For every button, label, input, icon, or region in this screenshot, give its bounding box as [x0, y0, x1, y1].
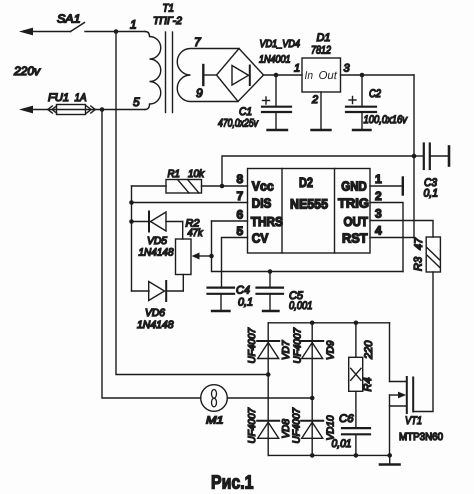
diode VD7 — [257, 341, 279, 359]
svg-text:0,1: 0,1 — [424, 188, 439, 200]
svg-text:2: 2 — [375, 189, 382, 203]
svg-text:VD10: VD10 — [326, 415, 337, 440]
svg-text:VD5: VD5 — [147, 235, 167, 247]
ground bar C5 — [263, 310, 279, 312]
svg-text:7812: 7812 — [311, 45, 331, 57]
svg-text:VT1: VT1 — [405, 415, 422, 427]
wire OUT pin3 to R3 — [370, 221, 433, 238]
node wiper junction — [209, 254, 214, 259]
svg-text:R3: R3 — [413, 256, 425, 271]
wire Vcc rail — [222, 156, 414, 186]
svg-text:1N4148: 1N4148 — [137, 319, 174, 331]
diode VD10 — [301, 421, 323, 439]
svg-text:SA1: SA1 — [57, 14, 81, 26]
node source junction — [387, 453, 392, 458]
node VD9 top junction — [310, 321, 315, 326]
wire RST drop — [413, 156, 415, 238]
svg-text:R1: R1 — [168, 168, 181, 180]
svg-text:Рис.1: Рис.1 — [211, 473, 254, 494]
svg-text:Vcc: Vcc — [252, 179, 274, 194]
wire UF bridge left column — [267, 323, 269, 456]
capacitor C5 — [257, 272, 284, 311]
svg-text:VD1_VD4: VD1_VD4 — [260, 38, 301, 50]
resistor R1 — [132, 180, 248, 194]
svg-text:5: 5 — [133, 95, 140, 109]
svg-text:VD9: VD9 — [326, 340, 337, 360]
svg-text:4: 4 — [375, 224, 382, 238]
wire inner bus from SA1 down to UF bridge — [116, 32, 268, 375]
wire TRIG pin2 drop — [370, 203, 403, 272]
node VD10 bottom junction — [310, 453, 315, 458]
wire UF bridge right column — [311, 323, 313, 456]
svg-text:5: 5 — [237, 224, 244, 238]
svg-text:220v: 220v — [13, 64, 41, 78]
svg-text:6: 6 — [237, 208, 244, 222]
node C2 junction — [360, 73, 365, 78]
svg-text:0,1: 0,1 — [238, 297, 253, 309]
svg-text:100,0x16v: 100,0x16v — [364, 114, 409, 126]
svg-text:NE555: NE555 — [290, 197, 328, 212]
svg-text:OUT: OUT — [344, 214, 369, 229]
svg-text:1: 1 — [294, 63, 300, 75]
transistor VT1 MOSFET — [390, 323, 414, 456]
voltage regulator D1 7812 — [302, 58, 341, 92]
svg-text:DIS: DIS — [252, 196, 272, 211]
wire outer bus from FU1 down to motor M1 — [102, 110, 201, 399]
wire UF bridge top rail — [268, 322, 389, 324]
node R4 top junction — [354, 321, 359, 326]
resistor R4 — [349, 323, 363, 428]
svg-text:2: 2 — [311, 94, 318, 106]
svg-text:C6: C6 — [339, 413, 354, 425]
svg-text:GND: GND — [341, 179, 367, 194]
diode VD8 — [257, 421, 279, 439]
terminal arrow mains line N — [19, 106, 48, 114]
svg-text:0,01: 0,01 — [332, 438, 352, 450]
node bridge right mid — [310, 396, 315, 401]
ground symbol — [380, 455, 400, 464]
svg-text:C2: C2 — [369, 88, 381, 100]
svg-text:1: 1 — [375, 172, 382, 186]
svg-text:D2: D2 — [299, 175, 313, 190]
ground bar C2 — [353, 129, 371, 131]
svg-text:R4: R4 — [362, 377, 374, 391]
svg-text:VD7: VD7 — [281, 340, 292, 360]
svg-text:UF4007: UF4007 — [293, 327, 304, 363]
node C1 junction — [274, 73, 279, 78]
wire FU1 to T1 pin5 — [95, 109, 145, 111]
node mains top junction — [114, 29, 119, 34]
svg-text:VD6: VD6 — [145, 307, 165, 319]
capacitor C2 electrolytic — [346, 75, 376, 130]
wire GND pin1 with bar — [370, 178, 403, 195]
svg-text:47: 47 — [413, 237, 425, 250]
svg-text:In: In — [305, 70, 314, 82]
wire THRS drop — [212, 221, 404, 272]
svg-text:0,001: 0,001 — [289, 300, 313, 312]
node bridge left mid — [266, 372, 271, 377]
wire R3 to gate — [414, 272, 433, 412]
transformer T1 core — [166, 32, 173, 113]
pin 2 wire D1 — [320, 92, 322, 130]
svg-text:1A: 1A — [75, 92, 87, 104]
svg-text:220: 220 — [363, 340, 375, 360]
wire left bus R1/DIS/VD5/VD6 — [131, 186, 133, 291]
motor M1 — [201, 385, 313, 412]
diode VD6 — [132, 281, 184, 301]
svg-text:C4: C4 — [236, 285, 250, 297]
svg-text:UF4007: UF4007 — [247, 407, 258, 443]
wire bridge output to D1 In — [264, 74, 303, 76]
svg-text:3: 3 — [375, 207, 382, 221]
svg-text:9: 9 — [196, 86, 203, 100]
svg-text:7: 7 — [237, 189, 244, 203]
svg-text:Out: Out — [319, 70, 338, 82]
node DIS junction — [129, 200, 134, 205]
svg-text:FU1: FU1 — [48, 92, 69, 104]
svg-text:1N4148: 1N4148 — [139, 247, 174, 259]
svg-text:THRS: THRS — [251, 214, 283, 229]
capacitor C3 — [414, 144, 449, 170]
timer IC D2 NE555 box — [248, 169, 371, 254]
svg-text:47k: 47k — [188, 227, 204, 239]
svg-text:3: 3 — [344, 63, 351, 75]
diode bridge VD1_VD4 diamond — [217, 49, 264, 102]
transformer T1 primary winding — [145, 32, 161, 110]
svg-text:M1: M1 — [206, 415, 224, 427]
wire UF bridge bottom rail — [268, 454, 390, 456]
diode VD9 — [301, 341, 323, 359]
svg-text:UF4007: UF4007 — [247, 327, 258, 363]
svg-text:1: 1 — [130, 18, 137, 32]
capacitor C1 electrolytic — [262, 75, 291, 130]
wire CV pin5 — [222, 238, 248, 288]
svg-text:8: 8 — [237, 172, 244, 186]
svg-text:D1: D1 — [317, 32, 331, 44]
svg-text:470,0x25v: 470,0x25v — [218, 118, 259, 130]
fuse FU1 — [48, 105, 96, 115]
resistor R3 — [426, 237, 440, 272]
capacitor C6 — [342, 428, 370, 455]
potentiometer R2 — [176, 239, 212, 291]
wire THRS to wiper junction — [212, 220, 248, 222]
transformer T1 secondary tap bar pin9 — [203, 65, 216, 85]
svg-text:1N4001: 1N4001 — [259, 54, 291, 66]
svg-text:T1: T1 — [163, 3, 175, 15]
node VD5 junction — [129, 219, 134, 224]
terminal arrow mains line L — [19, 28, 71, 36]
svg-text:10k: 10k — [188, 168, 205, 180]
node C6 bottom junction — [354, 453, 359, 458]
svg-text:TRIG: TRIG — [338, 196, 369, 211]
diode VD5 — [132, 212, 183, 240]
switch SA1 — [71, 23, 85, 32]
svg-text:CV: CV — [252, 231, 269, 246]
wire supply drop to rail — [413, 75, 415, 156]
svg-text:MTP3N60: MTP3N60 — [399, 431, 443, 443]
wire D1 Out to supply corner — [341, 74, 415, 76]
node Vcc pin8 junction — [220, 184, 225, 189]
svg-text:UF4007: UF4007 — [292, 407, 303, 443]
node C5 junction — [268, 269, 273, 274]
wire DIS pin7 — [132, 202, 248, 204]
svg-text:VD8: VD8 — [281, 419, 292, 439]
wire SA1 to T1 pin1 — [85, 31, 145, 33]
svg-text:RST: RST — [342, 231, 368, 246]
svg-text:C1: C1 — [239, 106, 252, 118]
ground bar D1 — [312, 129, 331, 131]
transformer T1 secondary winding — [177, 49, 239, 102]
node supply rail junction — [412, 154, 417, 159]
ground bar C1 — [268, 129, 288, 131]
wire RST pin4 — [370, 237, 414, 239]
svg-text:ТПГ-2: ТПГ-2 — [153, 15, 182, 27]
capacitor C4 — [208, 288, 235, 311]
diode bridge inner diode symbol — [232, 66, 250, 86]
node mains bottom junction — [100, 107, 105, 112]
ground bar C4 — [212, 310, 230, 312]
